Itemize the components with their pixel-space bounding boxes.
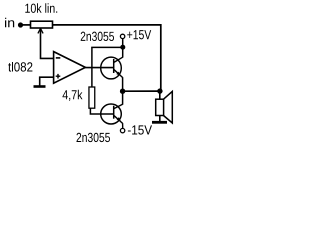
- -15V terminal circle: [120, 128, 124, 132]
- wire input dot to potentiometer: [21, 24, 31, 26]
- label 2n3055 upper: [81, 32, 114, 41]
- transistor Q2 base bar: [113, 106, 115, 119]
- ground under speaker: [152, 121, 167, 124]
- transistor Q1 base bar: [113, 59, 115, 73]
- wire speaker bottom to ground: [159, 116, 161, 122]
- wire output node to speaker junction: [123, 90, 161, 92]
- speaker LS1 driver rectangle: [156, 99, 164, 115]
- resistor R1 4,7k body: [89, 87, 95, 108]
- speaker LS1 cone: [164, 91, 173, 123]
- input terminal dot: [18, 22, 23, 27]
- transistor Q1 emitter diagonal: [114, 69, 123, 77]
- label 4,7k: [63, 90, 83, 101]
- transistor Q1 collector diagonal: [114, 57, 123, 62]
- op-amp plus sign: [56, 74, 61, 79]
- wire output node down to lower transistor collector: [122, 91, 124, 105]
- label tl082: [8, 62, 32, 72]
- +15V terminal circle: [120, 34, 124, 38]
- junction dot +15V rail: [120, 45, 125, 50]
- label "10k lin." for potentiometer: [25, 3, 57, 13]
- op-amp U1 triangle: [54, 52, 86, 84]
- wire non-inverting input to ground: [40, 77, 54, 86]
- wire top rail: pot right terminal to right edge (feedback to output node): [53, 25, 161, 91]
- transistor Q1 2n3055 circle: [101, 57, 122, 79]
- wire +15V terminal down to junction: [122, 39, 124, 47]
- wire op-amp output to upper transistor base: [85, 67, 114, 69]
- wire +15V junction down to upper transistor collector: [122, 47, 124, 57]
- transistor Q2 collector diagonal: [114, 104, 123, 109]
- wire vertical from +15V feed down through output wire to resistor: [91, 47, 93, 87]
- junction dot speaker node: [157, 88, 162, 93]
- wire speaker node down to speaker: [159, 91, 161, 99]
- wire wiper down to inverting input: [41, 28, 54, 58]
- label -15V: [128, 125, 152, 134]
- label "in" input: [5, 18, 14, 28]
- wire horizontal to +15V junction: [91, 46, 123, 48]
- label +15V: [127, 30, 151, 39]
- ground at op-amp plus input: [34, 85, 46, 88]
- wire resistor bottom to lower transistor base: [90, 108, 113, 114]
- transistor Q2 2n3055 circle: [101, 104, 122, 124]
- output node junction dot: [120, 89, 125, 94]
- label 2n3055 lower: [77, 133, 111, 142]
- transistor Q1 emitter arrowhead: [116, 72, 120, 76]
- wire Q2 emitter down to -15V terminal: [122, 123, 124, 128]
- potentiometer wiper arrow: [38, 28, 43, 33]
- wire Q1 emitter down to output node: [122, 77, 124, 91]
- transistor Q2 emitter diagonal: [114, 115, 123, 123]
- potentiometer P1 10k body: [31, 21, 53, 28]
- transistor Q2 emitter arrowhead: [117, 117, 121, 121]
- op-amp minus sign: [56, 57, 61, 59]
